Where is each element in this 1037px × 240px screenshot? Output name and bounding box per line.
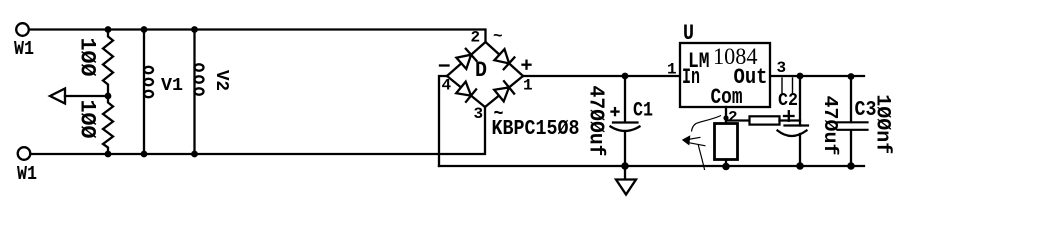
wire ground arrow to resistor node: [65, 95, 108, 97]
capacitor C1 bottom lead: [624, 131, 626, 166]
capacitor C3 plates: [838, 121, 868, 123]
svg-text:W1: W1: [14, 38, 34, 60]
wire bridge minus lead: [439, 76, 447, 166]
transformer winding V1: [143, 30, 145, 155]
capacitor C2 plates: [785, 124, 809, 126]
capacitor C3 top lead: [850, 76, 852, 122]
svg-text:1ØØ: 1ØØ: [75, 100, 100, 139]
wire positive rail to regulator In: [523, 75, 680, 77]
junction: top rail / resistor chain: [105, 26, 112, 33]
plus sign at bridge pin 1: [523, 64, 531, 66]
wire regulator Out rail: [770, 75, 864, 77]
resistor R bottom 100: [103, 96, 113, 154]
capacitor C1 top lead: [624, 76, 626, 122]
svg-text:In: In: [682, 65, 700, 90]
transformer winding V2: [193, 30, 195, 155]
junction: out rail / C3: [848, 73, 855, 80]
bridge diode (left corner to top corner): [447, 42, 486, 76]
minus sign at bridge pin 4: [440, 64, 449, 66]
svg-text:4: 4: [442, 77, 452, 95]
bridge diode (bottom corner to right corner): [485, 76, 523, 107]
wire horizontal resistor to C2 lead: [780, 119, 801, 121]
wire adjust node to horizontal resistor: [726, 119, 750, 121]
svg-text:C2: C2: [778, 90, 798, 111]
svg-text:U: U: [683, 21, 694, 46]
capacitor C3 bottom lead: [850, 131, 852, 167]
capacitor C1 plates: [613, 121, 638, 123]
resistor box horizontal (divider upper): [750, 116, 780, 124]
plus sign C1: [612, 110, 619, 112]
junction: negative rail / C1 / ground: [621, 162, 629, 170]
junction: top rail / V1: [141, 26, 148, 33]
op IC U box LM1084: [680, 43, 770, 107]
capacitor C2 top lead: [799, 76, 801, 126]
resistor box vertical (adjust divider lower): [715, 124, 738, 160]
ground symbol bottom: [624, 166, 626, 180]
wire negative rail: [439, 165, 864, 167]
junction: positive rail / C1: [622, 73, 629, 80]
svg-text:2: 2: [728, 109, 738, 127]
svg-text:47ØØuf: 47ØØuf: [584, 86, 607, 157]
svg-text:1ØØnf: 1ØØnf: [871, 94, 894, 154]
svg-text:~: ~: [493, 28, 503, 46]
terminal W1 bottom: [18, 147, 31, 160]
bridge diode (top corner to right corner): [486, 42, 524, 76]
junction: bottom rail / V1: [141, 151, 148, 158]
junction: out rail / C2: [797, 73, 804, 80]
wire top AC rail: [29, 30, 486, 43]
resistor R top 100: [103, 30, 113, 97]
bridge diode (left corner to bottom corner): [447, 76, 485, 107]
svg-text:2: 2: [471, 29, 481, 47]
ground arrow left: [50, 89, 65, 104]
junction: negative rail / C3: [847, 162, 855, 170]
terminal W1 top: [16, 23, 29, 36]
svg-text:D: D: [475, 58, 487, 83]
junction: resistor midpoint / ground arrow: [105, 93, 112, 100]
junction: Com node: [723, 115, 728, 120]
svg-text:W1: W1: [17, 163, 37, 185]
svg-text:1ØØ: 1ØØ: [75, 38, 100, 77]
svg-text:1: 1: [523, 77, 533, 95]
junction: negative rail / resistor: [722, 163, 730, 171]
plus sign C2: [784, 115, 794, 117]
junction: negative rail / C2: [796, 162, 804, 170]
svg-text:47Øuf: 47Øuf: [819, 96, 841, 156]
junction: bottom rail / V2: [191, 151, 198, 158]
svg-text:KBPC15Ø8: KBPC15Ø8: [492, 117, 580, 141]
junction: top rail / V2: [191, 26, 198, 33]
capacitor C2 bottom lead: [799, 134, 801, 166]
tick marks below out rail: [781, 78, 783, 93]
svg-text:V2: V2: [211, 70, 231, 91]
svg-text:Com: Com: [711, 85, 743, 110]
svg-text:3: 3: [777, 59, 787, 77]
freehand arrow annotation: [682, 116, 721, 171]
wire bottom AC rail: [31, 107, 486, 154]
wire Com pin stub: [725, 107, 727, 123]
svg-text:C1: C1: [633, 100, 653, 123]
svg-text:V1: V1: [161, 76, 183, 96]
junction: bottom rail / resistor chain: [105, 151, 112, 158]
wire resistor bottom lead: [725, 160, 727, 167]
svg-text:1: 1: [667, 61, 677, 79]
svg-text:3: 3: [474, 105, 484, 123]
